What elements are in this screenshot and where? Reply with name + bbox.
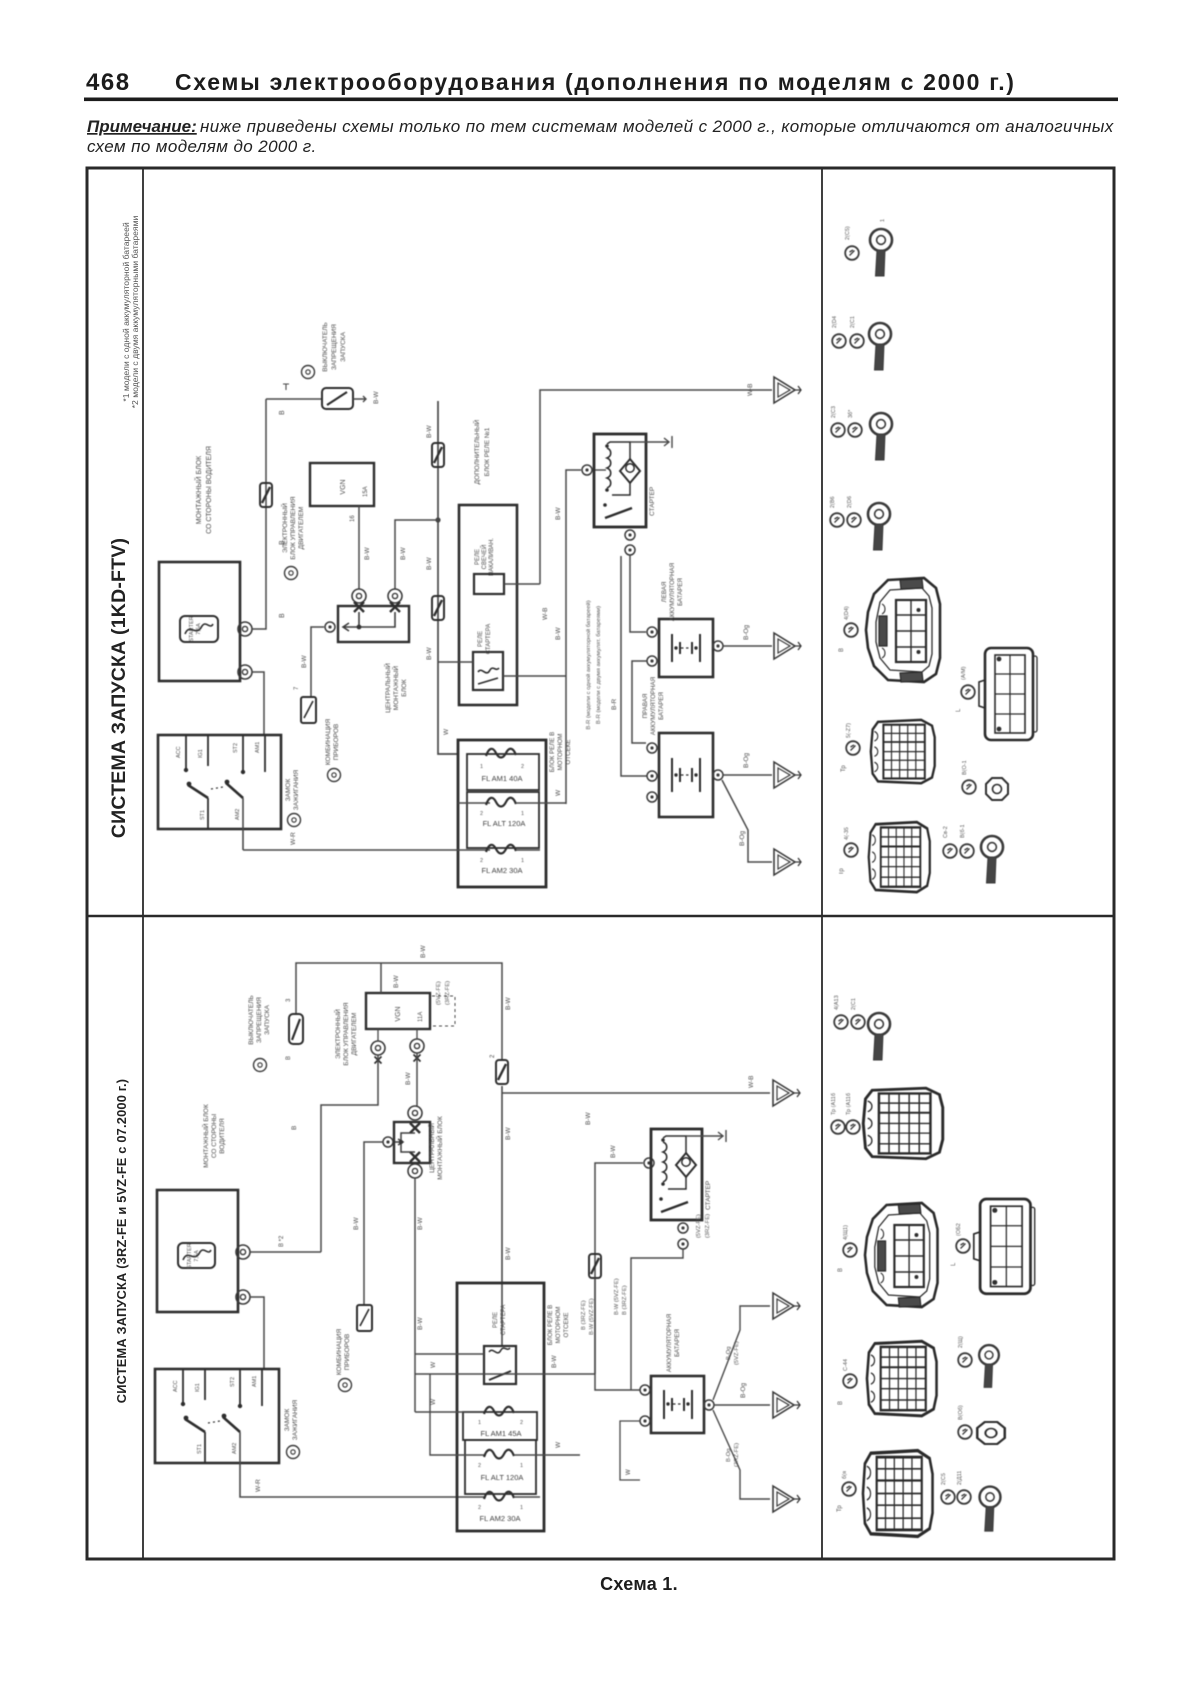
svg-text:ЛЕВАЯ: ЛЕВАЯ xyxy=(661,582,668,603)
wire W out right xyxy=(546,802,566,804)
svg-text:ОТСЕКЕ: ОТСЕКЕ xyxy=(563,1313,570,1338)
nut terminal xyxy=(986,778,1008,800)
svg-text:МОНТАЖНЫЙ БЛОК: МОНТАЖНЫЙ БЛОК xyxy=(201,1104,210,1168)
svg-text:1: 1 xyxy=(520,1505,523,1511)
svg-text:ДВИГАТЕЛЕМ: ДВИГАТЕЛЕМ xyxy=(351,1013,358,1056)
fuse box БЛОК РЕЛЕ В МОТОРНОМ ОТСЕКЕ xyxy=(458,732,572,887)
svg-text:B *2: B *2 xyxy=(279,1235,285,1247)
wire fuse out to node xyxy=(252,399,266,629)
ref bubble ignition2 xyxy=(287,1446,300,1459)
svg-text:B: B xyxy=(838,1268,844,1272)
svg-text:(5VZ-FE): (5VZ-FE) xyxy=(696,1214,702,1238)
label circles B1 xyxy=(834,1015,848,1029)
ring terminal T1 xyxy=(870,229,892,276)
svg-text:W-B: W-B xyxy=(542,607,549,620)
starter terminals below xyxy=(678,1223,688,1233)
svg-text:B(Об): B(Об) xyxy=(958,1405,964,1420)
svg-text:ЗАМОК: ЗАМОК xyxy=(285,779,292,802)
ref bubble ECU xyxy=(285,567,298,580)
battery АККУМУЛЯТОРНАЯ БАТАРЕЯ xyxy=(651,1314,704,1433)
wire pin2 down to central block xyxy=(416,1053,418,1106)
svg-text:B-W (5VZ-FE): B-W (5VZ-FE) xyxy=(614,1278,620,1315)
relay box МОНТАЖНЫЙ БЛОК СО СТОРОНЫ ВОДИТЕЛЯ xyxy=(157,1104,238,1312)
wire starter relay out to starter xyxy=(503,470,581,804)
svg-text:2(Щ): 2(Щ) xyxy=(958,1336,964,1348)
left column titles xyxy=(108,216,140,1404)
battery terminals xyxy=(640,1385,650,1395)
svg-text:СО СТОРОНЫ: СО СТОРОНЫ xyxy=(211,1114,218,1159)
svg-text:2(C3: 2(C3 xyxy=(831,406,837,418)
wire battery2 to ground3 xyxy=(722,780,772,862)
svg-text:Примечание:: Примечание: xyxy=(87,117,197,136)
wire W-B to ground xyxy=(502,1092,770,1094)
label circle xyxy=(846,741,860,755)
svg-text:АККУМУЛЯТОРНАЯ: АККУМУЛЯТОРНАЯ xyxy=(666,1314,673,1372)
svg-text:2(B6: 2(B6 xyxy=(830,496,836,508)
svg-text:L: L xyxy=(951,1262,957,1266)
connector bottom grid xyxy=(869,822,930,892)
wire to ground xyxy=(723,645,772,647)
svg-text:МОНТАЖНЫЙ БЛОК: МОНТАЖНЫЙ БЛОК xyxy=(194,455,203,524)
svg-text:B-W: B-W xyxy=(610,1145,617,1159)
svg-text:B-Og: B-Og xyxy=(743,624,750,640)
box КОМБИНАЦИЯ ПРИБОРОВ xyxy=(301,697,340,765)
svg-text:STARTER: STARTER xyxy=(189,616,195,642)
ignition switch ЗАМОК ЗАЖИГАНИЯ xyxy=(155,1369,299,1463)
wire W-R ignition to fuse box xyxy=(240,1432,486,1497)
ref bubble ignition xyxy=(288,814,301,827)
wire to ground2 xyxy=(723,774,772,776)
svg-text:ACC: ACC xyxy=(173,1380,179,1392)
ground battery down xyxy=(773,1486,800,1512)
svg-text:БАТАРЕЯ: БАТАРЕЯ xyxy=(658,692,665,720)
svg-text:B-W: B-W xyxy=(405,1072,412,1086)
starter relay terminals xyxy=(625,530,635,540)
svg-text:2(D6: 2(D6 xyxy=(847,496,853,508)
fuse blob on right vertical xyxy=(496,1060,508,1084)
label circle T1 xyxy=(845,246,859,260)
svg-text:W: W xyxy=(626,1469,632,1475)
svg-text:АККУМУЛЯТОРНАЯ: АККУМУЛЯТОРНАЯ xyxy=(669,563,676,621)
ring terminal T5 xyxy=(981,836,1003,883)
connector pin circle 2 xyxy=(238,665,252,679)
label circle xyxy=(844,843,858,857)
svg-text:FL AM2 30A: FL AM2 30A xyxy=(480,1514,521,1523)
svg-text:(3RZ-FE): (3RZ-FE) xyxy=(734,1443,740,1467)
svg-text:ЦЕНТРАЛЬНЫЙ: ЦЕНТРАЛЬНЫЙ xyxy=(427,1123,436,1173)
svg-text:БЛОК УПРАВЛЕНИЯ: БЛОК УПРАВЛЕНИЯ xyxy=(343,1002,350,1065)
svg-text:W-R: W-R xyxy=(255,1479,262,1492)
long wire B-R xyxy=(621,556,647,776)
wire with arrow from fuse xyxy=(353,396,366,402)
label circle xyxy=(958,1353,972,1367)
svg-text:W: W xyxy=(555,1441,562,1448)
svg-text:AM2: AM2 xyxy=(232,1443,238,1454)
ref bubble inhibit xyxy=(254,1059,267,1072)
right vertical wire down to relay box xyxy=(501,1086,503,1346)
fuse FL AM1 40A xyxy=(467,749,539,790)
svg-text:ЗАПУСКА: ЗАПУСКА xyxy=(264,1004,271,1034)
svg-text:1: 1 xyxy=(880,219,886,222)
connector L (rect) xyxy=(979,648,1037,740)
fuse ВЫКЛЮЧАТЕЛЬ ЗАПРЕЩЕНИЯ ЗАПУСКА xyxy=(248,995,303,1045)
svg-text:FL ALT 120A: FL ALT 120A xyxy=(481,1473,524,1482)
svg-text:РЕЛЕ: РЕЛЕ xyxy=(493,1312,499,1328)
ECU box ЭЛЕКТРОННЫЙ БЛОК УПРАВЛЕНИЯ ДВИГАТЕЛЕМ xyxy=(333,993,430,1066)
top wire B-W xyxy=(296,963,502,1059)
svg-text:4(D4): 4(D4) xyxy=(844,606,850,620)
svg-text:2: 2 xyxy=(480,858,483,864)
svg-text:ЗАПРЕЩЕНИЯ: ЗАПРЕЩЕНИЯ xyxy=(331,324,338,370)
wire W jumper verticals xyxy=(415,1353,484,1355)
svg-text:ЭЛЕКТРОННЫЙ: ЭЛЕКТРОННЫЙ xyxy=(280,503,289,553)
small ring terminal xyxy=(979,1345,999,1387)
label circles T2 xyxy=(832,334,846,348)
svg-text:ДВИГАТЕЛЕМ: ДВИГАТЕЛЕМ xyxy=(298,507,305,550)
svg-text:B-W: B-W xyxy=(400,547,407,561)
battery1 terminals xyxy=(647,627,657,637)
pin circles montage xyxy=(236,1245,250,1259)
wire into starter relay xyxy=(438,661,473,663)
ground top right xyxy=(774,377,801,403)
wire battery down to ground xyxy=(713,1410,770,1499)
svg-text:11A: 11A xyxy=(418,1012,424,1022)
fuse box БЛОК РЕЛЕ В МОТОРНОМ ОТСЕКЕ xyxy=(457,1283,570,1531)
ref bubble xyxy=(302,366,315,379)
svg-text:2(D4: 2(D4 xyxy=(832,316,838,328)
wire starter to battery xyxy=(631,1249,683,1390)
battery ПРАВАЯ АККУМУЛЯТОРНАЯ БАТАРЕЯ xyxy=(642,677,713,817)
block bottom relay circle xyxy=(408,1164,422,1178)
svg-text:B-W: B-W xyxy=(353,1217,360,1231)
svg-text:б(я: б(я xyxy=(842,1471,848,1479)
svg-text:B: B xyxy=(839,648,845,652)
svg-text:(ОБ2: (ОБ2 xyxy=(956,1223,962,1236)
svg-text:Тр (А11б: Тр (А11б xyxy=(831,1093,837,1115)
svg-text:СТАРТЕРА: СТАРТЕРА xyxy=(501,1305,507,1336)
relay circle on block pin A xyxy=(352,589,366,603)
fuse STARTER 7.5A xyxy=(178,1243,215,1269)
ground battery mid xyxy=(773,1392,800,1418)
svg-text:ниже приведены схемы только по: ниже приведены схемы только по тем систе… xyxy=(200,117,1114,136)
svg-text:B-W: B-W xyxy=(301,655,308,669)
relay РЕЛЕ СТАРТЕРА xyxy=(473,624,503,690)
wire battery up to ground xyxy=(713,1306,770,1400)
starter input terminal xyxy=(582,465,592,475)
svg-text:B(O-1: B(O-1 xyxy=(962,760,968,775)
svg-text:МОНТАЖНЫЙ БЛОК: МОНТАЖНЫЙ БЛОК xyxy=(435,1116,444,1180)
connector В (octagonal big) xyxy=(866,578,940,682)
svg-text:AM2: AM2 xyxy=(235,809,241,820)
svg-text:(3RZ-FE): (3RZ-FE) xyxy=(445,981,451,1005)
label circle xyxy=(958,1425,972,1439)
svg-text:B: B xyxy=(291,1126,298,1130)
svg-text:B-Og: B-Og xyxy=(726,1448,732,1462)
fuse blob on vertical wire xyxy=(260,483,272,507)
svg-text:B-W: B-W xyxy=(364,547,371,561)
svg-text:Тр: Тр xyxy=(839,868,845,875)
svg-text:VGN: VGN xyxy=(395,1006,402,1021)
wire glow relay right xyxy=(504,583,540,585)
svg-text:W-B: W-B xyxy=(748,1075,755,1088)
svg-text:4(-35: 4(-35 xyxy=(844,827,850,840)
svg-text:2: 2 xyxy=(480,811,483,817)
svg-text:B: B xyxy=(286,1056,292,1060)
ring terminal T2 xyxy=(869,323,891,370)
wire starter to battery1 xyxy=(630,555,646,632)
svg-text:3: 3 xyxy=(286,998,292,1002)
svg-text:ST2: ST2 xyxy=(233,743,239,753)
svg-text:ЗАПРЕЩЕНИЯ: ЗАПРЕЩЕНИЯ xyxy=(256,997,263,1043)
svg-text:ЦЕНТРАЛЬНЫЙ: ЦЕНТРАЛЬНЫЙ xyxy=(383,663,392,713)
svg-text:(5VZ-FE): (5VZ-FE) xyxy=(734,1341,740,1365)
svg-text:B: B xyxy=(279,410,286,415)
wire branch to relay circle 2 xyxy=(395,520,438,589)
svg-text:IG1: IG1 xyxy=(198,749,204,758)
svg-text:FL AM2 30A: FL AM2 30A xyxy=(482,866,523,875)
connector L2 (rect) xyxy=(974,1199,1035,1294)
svg-text:15A: 15A xyxy=(363,486,369,497)
relay РЕЛЕ СВЕЧЕЙ НАКАЛИВАНИЯ xyxy=(474,538,504,594)
svg-text:B-W: B-W xyxy=(417,1217,424,1231)
label circles grid B xyxy=(831,1120,845,1134)
svg-text:16: 16 xyxy=(350,515,356,522)
fuse FL AM2 30A xyxy=(478,1492,540,1523)
svg-text:B-W: B-W xyxy=(585,1112,592,1126)
battery2 terminals xyxy=(647,743,657,753)
fuse blob on starter wire xyxy=(589,1254,601,1278)
starter ground stub xyxy=(630,436,672,448)
wire W-B up to ground xyxy=(540,390,772,584)
svg-text:B: B xyxy=(838,1401,844,1405)
fuse STARTER 7.5A xyxy=(180,616,218,642)
svg-text:ST1: ST1 xyxy=(200,810,206,820)
svg-text:Схемы электрооборудования (доп: Схемы электрооборудования (дополнения по… xyxy=(175,69,1016,95)
svg-text:2(C5): 2(C5) xyxy=(845,226,851,240)
svg-text:W: W xyxy=(430,1361,437,1368)
svg-text:Тр: Тр xyxy=(837,1505,843,1512)
wire battery to ground mid xyxy=(714,1404,770,1406)
svg-text:AM1: AM1 xyxy=(255,742,261,753)
ring terminal T4 xyxy=(868,503,890,550)
svg-text:7: 7 xyxy=(294,686,300,690)
ring terminal B end xyxy=(980,1487,1001,1532)
svg-text:7,5A: 7,5A xyxy=(194,1250,200,1262)
svg-text:4(Щ1): 4(Щ1) xyxy=(843,1225,849,1240)
svg-text:БАТАРЕЯ: БАТАРЕЯ xyxy=(677,578,684,606)
starter box СТАРТЕР xyxy=(594,434,656,527)
svg-text:2(C1: 2(C1 xyxy=(850,316,856,328)
svg-text:(5VZ-FE): (5VZ-FE) xyxy=(436,981,442,1005)
connector В2 (octagonal big) xyxy=(865,1203,938,1307)
label circle connR xyxy=(961,685,975,699)
label circles T3 xyxy=(831,423,845,437)
svg-text:БАТАРЕЯ: БАТАРЕЯ xyxy=(674,1329,681,1357)
pin 10 tick xyxy=(283,384,289,390)
svg-text:ST1: ST1 xyxy=(197,1444,203,1454)
svg-text:B-Og: B-Og xyxy=(726,1346,732,1360)
svg-text:W-R: W-R xyxy=(290,832,297,845)
wire ECU pin 16 down to relay circle xyxy=(358,506,360,589)
svg-text:4(A13: 4(A13 xyxy=(834,995,840,1010)
svg-text:СТАРТЕР: СТАРТЕР xyxy=(649,487,656,516)
svg-text:2: 2 xyxy=(520,1420,523,1426)
svg-text:МОТОРНОМ: МОТОРНОМ xyxy=(555,1307,562,1344)
svg-text:VGN: VGN xyxy=(340,479,347,494)
svg-text:2: 2 xyxy=(478,1463,481,1469)
label circle xyxy=(956,1239,970,1253)
svg-text:ДОПОЛНИТЕЛЬНЫЙ: ДОПОЛНИТЕЛЬНЫЙ xyxy=(472,419,481,484)
central block ЦЕНТРАЛЬНЫЙ МОНТАЖНЫЙ БЛОК xyxy=(338,606,409,713)
label circle nut xyxy=(962,780,976,794)
svg-text:ЗАЖИГАНИЯ: ЗАЖИГАНИЯ xyxy=(292,1399,299,1440)
svg-text:СТАРТЕРА: СТАРТЕРА xyxy=(486,624,492,655)
svg-text:FL ALT 120A: FL ALT 120A xyxy=(483,819,526,828)
wire ECU stub to top wire xyxy=(380,963,382,993)
svg-text:B-W: B-W xyxy=(505,1127,512,1141)
relay circle on block pin B xyxy=(388,589,402,603)
svg-text:W: W xyxy=(430,1398,437,1405)
svg-text:КОМБИНАЦИЯ: КОМБИНАЦИЯ xyxy=(336,1329,343,1376)
svg-text:ОТСЕКЕ: ОТСЕКЕ xyxy=(565,740,572,765)
svg-text:БЛОК УПРАВЛЕНИЯ: БЛОК УПРАВЛЕНИЯ xyxy=(290,496,297,559)
starter wire B-W xyxy=(595,1163,643,1374)
label circles T4 xyxy=(830,513,844,527)
svg-text:B-W: B-W xyxy=(393,975,400,989)
svg-text:НАКАЛИВАН.: НАКАЛИВАН. xyxy=(489,538,495,576)
svg-text:B-W: B-W xyxy=(426,425,433,439)
svg-text:2(C5: 2(C5 xyxy=(941,1473,947,1485)
wire to combination meter xyxy=(311,627,324,697)
svg-text:КОМБИНАЦИЯ: КОМБИНАЦИЯ xyxy=(325,719,332,766)
svg-text:В(б-1: В(б-1 xyxy=(960,824,966,838)
label circle xyxy=(842,1482,856,1496)
svg-text:ЗАПУСКА: ЗАПУСКА xyxy=(340,331,347,361)
svg-text:W: W xyxy=(443,728,450,735)
relay box МОНТАЖНЫЙ БЛОК СО СТОРОНЫ ВОДИТЕЛЯ xyxy=(159,446,240,681)
inner link wire xyxy=(343,612,395,631)
svg-text:ПРИБОРОВ: ПРИБОРОВ xyxy=(333,724,340,761)
svg-text:B-W: B-W xyxy=(420,945,427,959)
svg-text:FL AM1 40A: FL AM1 40A xyxy=(482,774,523,783)
svg-text:ВЫКЛЮЧАТЕЛЬ: ВЫКЛЮЧАТЕЛЬ xyxy=(322,322,329,372)
svg-text:БЛОК РЕЛЕ №1: БЛОК РЕЛЕ №1 xyxy=(484,427,491,476)
svg-text:РЕЛЕ: РЕЛЕ xyxy=(478,631,484,647)
inner wire xyxy=(395,1133,415,1152)
svg-text:IG1: IG1 xyxy=(195,1383,201,1392)
svg-text:Схема 1.: Схема 1. xyxy=(600,1574,678,1594)
nut terminal B xyxy=(977,1422,1005,1444)
ring terminal B1 xyxy=(868,1013,890,1060)
battery1 + terminal xyxy=(713,641,723,651)
svg-text:СТАРТЕР: СТАРТЕР xyxy=(705,1181,712,1210)
svg-text:1: 1 xyxy=(521,858,524,864)
wire montage pin2 to ignition xyxy=(250,1297,264,1369)
block top relay circle xyxy=(408,1106,422,1120)
svg-text:B-R (модели с двумя аккумулят.: B-R (модели с двумя аккумулят. батареями… xyxy=(596,606,602,724)
svg-text:(3RZ-FE): (3RZ-FE) xyxy=(705,1214,711,1238)
label circles T5 xyxy=(943,844,957,858)
svg-text:(A/M): (A/M) xyxy=(961,666,967,680)
svg-text:B-W: B-W xyxy=(555,627,562,641)
starter ground stub xyxy=(686,1130,726,1142)
svg-text:2(C1: 2(C1 xyxy=(851,998,857,1010)
svg-text:W: W xyxy=(555,789,562,796)
svg-text:СИСТЕМА ЗАПУСКА (1KD-FTV): СИСТЕМА ЗАПУСКА (1KD-FTV) xyxy=(108,538,130,838)
svg-text:B-R (модели с одной аккумулято: B-R (модели с одной аккумуляторной батар… xyxy=(585,600,592,729)
svg-text:B-Og: B-Og xyxy=(740,1382,747,1398)
svg-text:Св-2: Св-2 xyxy=(943,826,949,838)
svg-text:РЕЛЕ: РЕЛЕ xyxy=(475,549,481,565)
ground battery2 second xyxy=(774,849,801,875)
svg-text:СО СТОРОНЫ ВОДИТЕЛЯ: СО СТОРОНЫ ВОДИТЕЛЯ xyxy=(206,446,213,534)
ECU box ЭЛЕКТРОННЫЙ БЛОК УПРАВЛЕНИЯ ДВИГАТЕЛЕМ xyxy=(280,463,374,560)
svg-text:7,5A: 7,5A xyxy=(196,623,202,635)
svg-text:ЗАЖИГАНИЯ: ЗАЖИГАНИЯ xyxy=(293,769,300,810)
svg-text:L: L xyxy=(956,708,962,712)
connector big grid B xyxy=(863,1088,943,1159)
svg-text:БЛОК РЕЛЕ В: БЛОК РЕЛЕ В xyxy=(549,732,556,773)
starter input terminal xyxy=(644,1158,654,1168)
connector Тр (grid) xyxy=(871,720,935,783)
relay РЕЛЕ СТАРТЕРА xyxy=(484,1305,516,1384)
svg-text:1: 1 xyxy=(521,811,524,817)
svg-text:B-W: B-W xyxy=(417,1317,424,1331)
svg-text:3б*: 3б* xyxy=(848,409,854,418)
svg-text:ЗАМОК: ЗАМОК xyxy=(284,1409,291,1432)
label circle xyxy=(843,1243,857,1257)
svg-text:1: 1 xyxy=(520,1463,523,1469)
svg-text:B-W: B-W xyxy=(426,647,433,661)
wire battery1 to battery2 xyxy=(632,661,647,743)
svg-text:2: 2 xyxy=(521,764,524,770)
fuse FL AM1 45A xyxy=(415,1407,537,1440)
battery ЛЕВАЯ АККУМУЛЯТОРНАЯ БАТАРЕЯ xyxy=(659,563,713,677)
svg-text:1: 1 xyxy=(480,764,483,770)
connector С-44 grid xyxy=(867,1341,937,1416)
ignition switch ЗАМОК ЗАЖИГАНИЯ xyxy=(158,735,300,829)
wire W-R from ignition to fuse box xyxy=(242,798,244,850)
wire pin1 branch xyxy=(321,1055,378,1252)
starter box СТАРТЕР xyxy=(651,1129,712,1220)
svg-text:АККУМУЛЯТОРНАЯ: АККУМУЛЯТОРНАЯ xyxy=(650,677,657,735)
svg-text:БЛОК РЕЛЕ В: БЛОК РЕЛЕ В xyxy=(547,1305,554,1346)
block left pin circle xyxy=(325,622,335,632)
X marks xyxy=(410,1123,420,1133)
ground battery up xyxy=(773,1293,800,1319)
label circle xyxy=(843,1374,857,1388)
fuse FL AM2 30A xyxy=(243,845,540,875)
ground battery1 xyxy=(774,633,801,659)
svg-text:Тр: Тр xyxy=(841,765,847,772)
block left circle xyxy=(383,1137,393,1147)
svg-text:С-44: С-44 xyxy=(843,1359,849,1371)
wire to battery xyxy=(595,1278,640,1390)
svg-text:B-W: B-W xyxy=(555,507,562,521)
svg-text:FL AM1 45A: FL AM1 45A xyxy=(481,1429,522,1438)
ECU pin circles xyxy=(371,1041,385,1055)
fuse blob 7.5A xyxy=(432,596,444,620)
svg-text:B-W: B-W xyxy=(551,1355,558,1369)
wire central block down xyxy=(414,1178,416,1412)
battery2 + terminal xyxy=(713,770,723,780)
svg-text:B-Og: B-Og xyxy=(739,830,746,846)
svg-text:AM1: AM1 xyxy=(252,1376,258,1387)
svg-text:ST2: ST2 xyxy=(230,1377,236,1387)
svg-text:B-W: B-W xyxy=(373,391,380,405)
svg-text:МОНТАЖНЫЙ: МОНТАЖНЫЙ xyxy=(391,665,400,710)
dashed model bracket xyxy=(432,996,455,1026)
